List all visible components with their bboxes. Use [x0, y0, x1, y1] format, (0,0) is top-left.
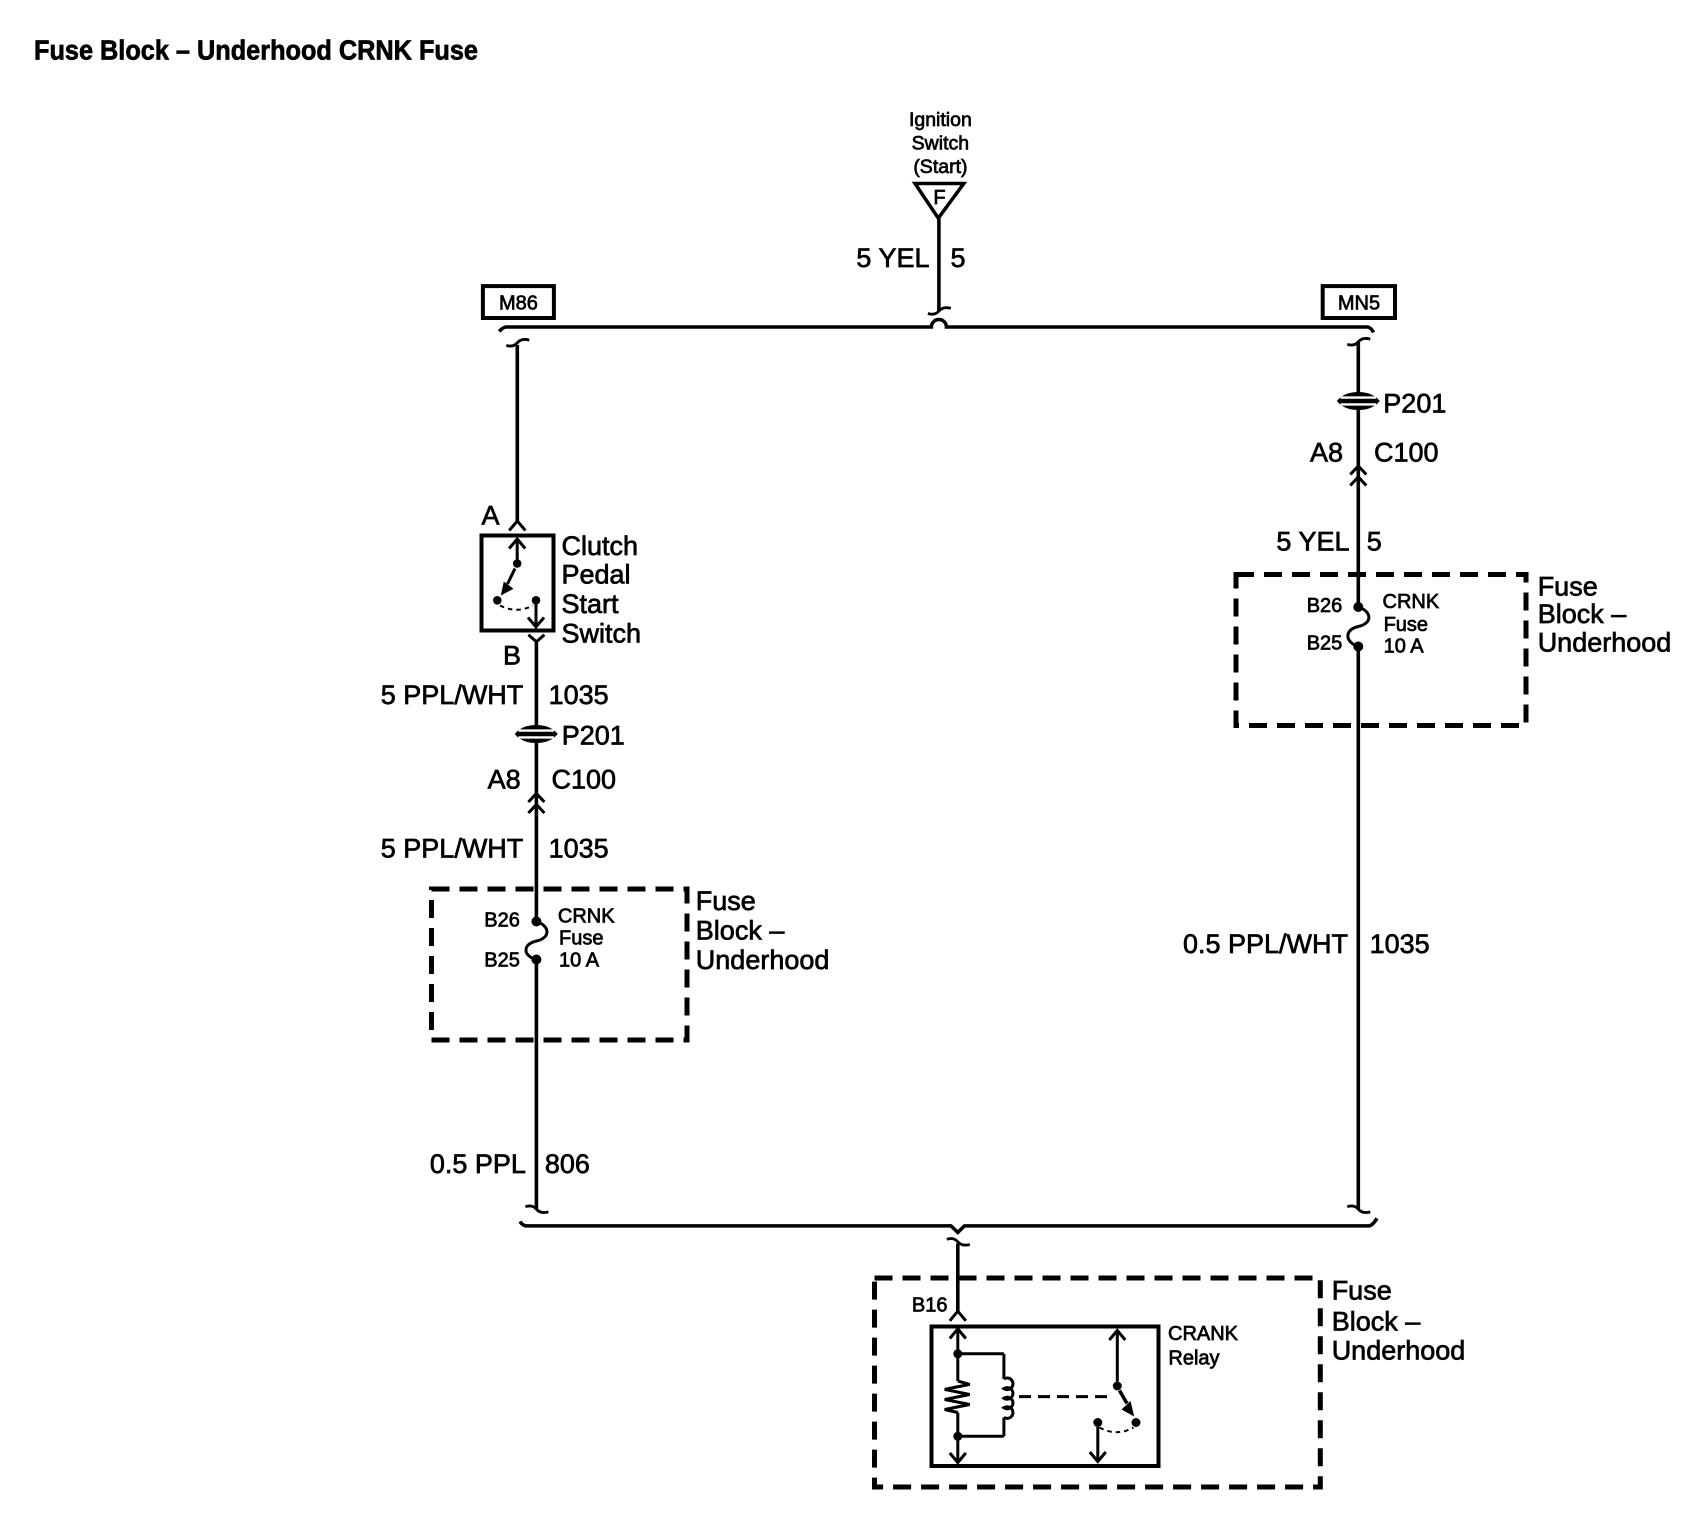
svg-text:5 PPL/WHT: 5 PPL/WHT	[381, 680, 524, 710]
svg-text:0.5 PPL/WHT: 0.5 PPL/WHT	[1183, 929, 1348, 959]
svg-text:B25: B25	[484, 949, 520, 971]
svg-text:CRNK: CRNK	[558, 906, 615, 928]
svg-text:(Start): (Start)	[913, 156, 967, 178]
svg-text:Block –: Block –	[1538, 599, 1627, 629]
svg-text:Ignition: Ignition	[909, 109, 972, 131]
svg-text:5: 5	[1367, 527, 1382, 557]
svg-text:B16: B16	[912, 1295, 948, 1317]
svg-text:Fuse Block – Underhood CRNK Fu: Fuse Block – Underhood CRNK Fuse	[34, 35, 478, 66]
svg-text:5: 5	[951, 243, 966, 273]
svg-text:Start: Start	[562, 589, 620, 619]
svg-text:P201: P201	[1383, 389, 1446, 419]
svg-text:A: A	[481, 501, 499, 531]
svg-text:Pedal: Pedal	[562, 560, 631, 590]
svg-text:CRANK: CRANK	[1168, 1323, 1239, 1345]
svg-text:Block –: Block –	[696, 916, 785, 946]
svg-text:Switch: Switch	[562, 619, 642, 649]
svg-text:1035: 1035	[549, 680, 609, 710]
svg-text:Switch: Switch	[912, 133, 969, 155]
svg-text:CRNK: CRNK	[1383, 591, 1440, 613]
svg-text:A8: A8	[1310, 438, 1343, 468]
svg-text:A8: A8	[488, 765, 521, 795]
svg-text:B25: B25	[1307, 633, 1343, 655]
svg-text:1035: 1035	[549, 833, 609, 863]
svg-text:Underhood: Underhood	[1332, 1336, 1466, 1366]
svg-text:C100: C100	[1374, 438, 1439, 468]
svg-text:Relay: Relay	[1168, 1348, 1219, 1370]
svg-text:806: 806	[545, 1149, 590, 1179]
svg-text:M86: M86	[499, 292, 538, 314]
svg-text:B26: B26	[1307, 595, 1343, 617]
svg-text:B26: B26	[484, 910, 520, 932]
svg-text:5 YEL: 5 YEL	[856, 243, 929, 273]
svg-text:Fuse: Fuse	[1384, 614, 1428, 636]
svg-text:F: F	[933, 187, 945, 209]
svg-text:Fuse: Fuse	[559, 928, 603, 950]
svg-text:B: B	[503, 641, 521, 671]
svg-text:0.5 PPL: 0.5 PPL	[430, 1149, 526, 1179]
svg-text:C100: C100	[552, 765, 617, 795]
svg-text:Underhood: Underhood	[1538, 628, 1672, 658]
svg-text:Clutch: Clutch	[562, 531, 639, 561]
svg-text:1035: 1035	[1370, 929, 1430, 959]
svg-text:MN5: MN5	[1338, 292, 1380, 314]
svg-text:5 YEL: 5 YEL	[1276, 527, 1349, 557]
svg-text:5 PPL/WHT: 5 PPL/WHT	[381, 833, 524, 863]
svg-text:Fuse: Fuse	[1332, 1275, 1392, 1305]
svg-text:Block –: Block –	[1332, 1306, 1421, 1336]
svg-text:10 A: 10 A	[559, 949, 600, 971]
svg-text:Underhood: Underhood	[696, 945, 830, 975]
svg-text:10 A: 10 A	[1384, 635, 1425, 657]
svg-text:Fuse: Fuse	[696, 886, 756, 916]
svg-text:P201: P201	[562, 720, 625, 750]
svg-text:Fuse: Fuse	[1538, 572, 1598, 602]
